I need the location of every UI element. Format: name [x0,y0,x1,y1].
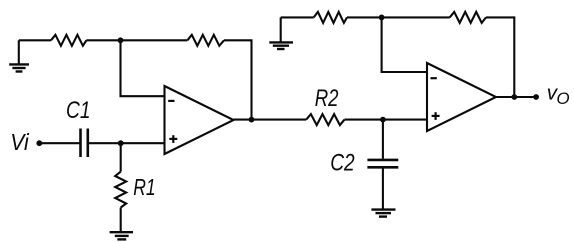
capacitor C2 (vertical to ground) [367,120,398,210]
wire G1 to R3 [19,39,51,41]
wire C1 to U1 non-inverting input [88,142,165,144]
wire node A to R4 [121,39,188,41]
ground G4 (below C2) [371,210,395,217]
svg-text:C2: C2 [330,150,355,177]
svg-text:O: O [556,89,569,108]
node B (U1 output junction) [249,117,255,123]
ground G2 (top-right) [269,17,293,49]
wire U1 output to R2 [234,119,307,121]
node E (stage-2 inverting-net junction) [379,15,385,21]
wire R3 to node A [86,39,120,41]
node F (U2 output junction) [511,94,517,100]
op-amp U1 [165,86,234,154]
resistor R5 (stage-2 grounding resistor) [314,12,347,23]
wire node E down to U2 inverting input [382,17,427,72]
svg-text:C1: C1 [66,97,91,124]
resistor R3 (stage-1 grounding resistor) [51,35,86,46]
svg-text:R1: R1 [133,174,156,200]
svg-text:Vi: Vi [10,129,29,155]
wire R2 to U2 non-inverting input [345,119,428,121]
wire input terminal to C1 [39,142,80,144]
wire node E to R6 [382,16,450,18]
wire R5 to node E [347,16,382,18]
resistor R2 [306,114,344,125]
svg-text:R2: R2 [315,85,339,112]
wire R4 to op-amp U1 output node B [224,40,252,119]
ground G3 (below R1) [110,232,133,239]
wire U2 output to output terminal [496,96,536,98]
wire R6 to U2 output node F [486,17,514,97]
wire G2 to R5 [281,16,314,18]
resistor R1 (vertical to ground) [115,143,126,232]
node D (junction of R2, C2, U2 +) [380,117,386,123]
wire node A down to U1 inverting input [121,40,165,96]
resistor R4 (stage-1 feedback resistor) [187,35,224,46]
node A (inverting-net junction) [118,37,124,43]
ground G1 (top-left) [9,40,29,71]
capacitor C1 [81,129,88,158]
input terminal dot [36,140,42,146]
vO label [547,82,570,108]
op-amp U2 [427,63,496,131]
output terminal dot [533,94,539,100]
node C (junction of C1, R1, U1 +) [118,140,124,146]
resistor R6 (stage-2 feedback resistor) [450,12,486,23]
